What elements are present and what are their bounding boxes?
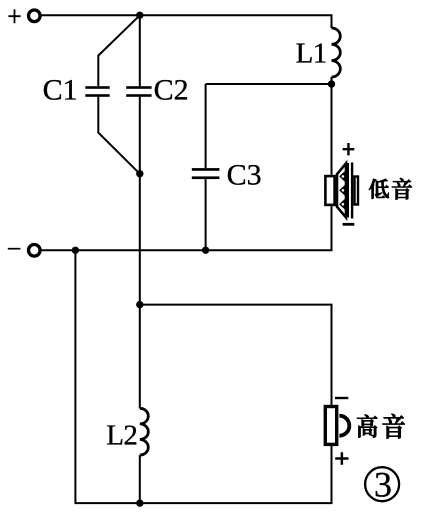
svg-text:C1: C1 [43, 74, 78, 107]
svg-text:L1: L1 [296, 37, 327, 69]
svg-text:C2: C2 [154, 74, 189, 107]
svg-text:L2: L2 [106, 420, 137, 452]
svg-text:3: 3 [374, 464, 392, 504]
svg-text:C3: C3 [227, 159, 262, 192]
